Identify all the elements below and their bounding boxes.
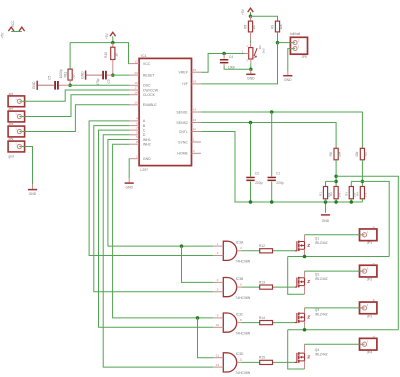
svg-text:10k: 10k <box>338 151 342 157</box>
wire R8 to trimmer net <box>250 41 252 43</box>
wire row A to Q3/Q4 sources <box>336 176 398 329</box>
wire C4 to ground node <box>224 67 251 70</box>
svg-text:GND: GND <box>32 81 36 89</box>
transistor Q2 IRLZ44Z <box>295 278 297 288</box>
svg-text:Q4: Q4 <box>315 348 320 352</box>
svg-text:INH2: INH2 <box>143 143 151 147</box>
svg-text:VREF: VREF <box>179 71 188 75</box>
svg-text:R8: R8 <box>243 25 247 29</box>
ground (below trimmer R2) <box>250 69 252 74</box>
IC1 pin 20 RESET <box>130 74 139 76</box>
svg-text:JP2: JP2 <box>367 278 373 282</box>
wire ground row stub <box>325 202 327 213</box>
svg-text:C2: C2 <box>255 172 259 176</box>
trimmer wiper lead <box>245 53 249 55</box>
resistor R14 <box>260 321 273 325</box>
svg-text:VCC: VCC <box>11 20 15 27</box>
svg-text:R10: R10 <box>104 52 108 58</box>
wire B to IC3B pin 5 <box>94 126 213 292</box>
wire Q1 source to Q2 source <box>288 257 305 295</box>
resistor R2 <box>334 187 338 199</box>
wire R5 down to R4 sense <box>361 160 363 187</box>
svg-text:3: 3 <box>246 59 248 63</box>
wire Q3 source to Q4 source <box>288 330 305 369</box>
wire INH1 to IC3A pin 1 <box>108 140 213 247</box>
svg-text:CW/CCW: CW/CCW <box>143 88 159 92</box>
svg-text:220p: 220p <box>255 181 263 185</box>
wire Q1 source down <box>304 249 306 256</box>
+5V supply symbol (top-left) <box>8 27 14 31</box>
ground (below IC1) <box>128 178 130 183</box>
svg-text:2: 2 <box>242 49 244 53</box>
svg-text:15: 15 <box>193 68 197 72</box>
resistor R9 <box>275 21 279 32</box>
ground (sense resistors) <box>321 214 330 216</box>
AND gate IC3A 74HC08N <box>223 241 236 260</box>
wire R9 to JP5 node <box>277 32 279 43</box>
resistor R15 <box>260 360 273 364</box>
IC1 pin 6 B <box>130 125 139 127</box>
junction R3 / ground row <box>350 200 354 204</box>
resistor R13 <box>260 285 273 289</box>
wire IC1 VREF pin 15 to trimmer wiper <box>201 54 245 73</box>
wire +5V stem <box>250 12 252 16</box>
svg-text:16: 16 <box>134 81 138 85</box>
junction INH2 <box>196 316 200 320</box>
svg-text:GND: GND <box>247 77 255 81</box>
svg-text:JP4: JP4 <box>367 351 373 355</box>
svg-text:GND: GND <box>143 157 151 161</box>
wire node to JP5 pin 2 <box>278 42 291 44</box>
svg-text:d: d <box>373 335 375 339</box>
junction C2 / ground row <box>249 200 253 204</box>
svg-text:4: 4 <box>136 117 138 121</box>
junction Q3 source <box>303 328 307 332</box>
svg-text:Q3: Q3 <box>315 308 320 312</box>
svg-text:10K: 10K <box>279 23 283 30</box>
svg-text:8: 8 <box>136 140 138 144</box>
wire JP9 to ground <box>20 147 33 185</box>
IC1 pin 15 VREF <box>192 71 201 73</box>
svg-text:10: 10 <box>134 101 138 105</box>
IC1 pin 4 A <box>130 120 139 122</box>
svg-text:6: 6 <box>136 121 138 125</box>
svg-text:JP5: JP5 <box>301 55 307 59</box>
IC3B output pin 6 <box>237 286 242 288</box>
svg-text:R12: R12 <box>259 244 265 248</box>
op-amp /controller IC1 L297 body <box>139 58 191 165</box>
svg-text:HOME: HOME <box>177 152 188 156</box>
wire trimmer pin 3 lead <box>250 59 252 64</box>
svg-text:12: 12 <box>216 353 220 357</box>
connector JP9 <box>8 141 25 152</box>
svg-text:3: 3 <box>193 149 195 153</box>
svg-text:R6: R6 <box>329 152 333 156</box>
svg-text:1W: 1W <box>364 193 368 198</box>
AND gate IC3B 74HC08N <box>223 278 236 297</box>
junction +5V right rail <box>249 14 253 18</box>
capacitor C4 leads <box>223 54 225 67</box>
resistor R12 <box>260 249 273 253</box>
svg-text:H/F: H/F <box>182 82 188 86</box>
svg-text:IRLZ44Z: IRLZ44Z <box>315 352 328 356</box>
connector JP2 <box>360 265 377 277</box>
wire IC3C output to gate of MOSFET <box>241 322 294 324</box>
wire RESET node to IC1 pin 20 <box>113 74 130 76</box>
wire IC3D output to gate of MOSFET <box>241 361 294 363</box>
connector JP3 <box>360 302 377 314</box>
svg-text:R1: R1 <box>319 192 323 196</box>
svg-text:IC3D: IC3D <box>236 352 244 356</box>
+5V supply symbol (top-right) <box>248 8 254 12</box>
wire R3 top lead <box>350 181 352 186</box>
svg-text:13: 13 <box>216 363 220 367</box>
IC1 pin 2 GND <box>130 158 139 160</box>
wire C2 to ground row <box>250 182 252 203</box>
wire INH2 to IC3D pin 12 <box>198 318 214 358</box>
capacitor C2 <box>246 177 254 179</box>
svg-text:1: 1 <box>193 138 195 142</box>
junction +5V rail <box>111 41 115 45</box>
svg-text:ENABLE: ENABLE <box>143 103 157 107</box>
ground (below JP5) <box>287 71 289 76</box>
wire R6 down to R2 sense <box>335 160 337 187</box>
svg-text:a: a <box>373 226 375 230</box>
svg-text:CLOCK: CLOCK <box>143 93 156 97</box>
junction R6 / row A <box>334 175 338 179</box>
svg-text:GND: GND <box>284 78 292 82</box>
svg-text:74HC08N: 74HC08N <box>235 371 250 375</box>
IC3A pin 1 <box>213 245 223 247</box>
junction H/F node <box>276 41 280 45</box>
IC1 pin 1 SYNC <box>192 141 201 143</box>
IC3D pin 12 <box>213 357 223 359</box>
wire D to IC3D pin 13 <box>103 135 213 367</box>
VCC supply symbol (top-left) <box>19 27 25 31</box>
svg-text:4: 4 <box>217 278 219 282</box>
svg-text:11: 11 <box>193 127 196 131</box>
svg-text:GND: GND <box>322 219 330 223</box>
svg-text:C4: C4 <box>229 55 233 59</box>
IC3C pin 10 <box>213 326 223 328</box>
junction trimmer / C4 ground node <box>249 68 253 72</box>
junction RESET node <box>111 73 115 77</box>
wire rail to R10 <box>112 43 114 48</box>
svg-text:JP1: JP1 <box>367 241 373 245</box>
IC3C output pin 8 <box>237 322 242 324</box>
capacitor C1 <box>268 177 276 179</box>
IC1 pin 18 CLOCK <box>130 94 139 96</box>
connector JP8 <box>8 126 25 137</box>
wire Q3 source down <box>304 321 306 330</box>
svg-text:9: 9 <box>136 131 138 135</box>
svg-text:5: 5 <box>136 135 138 139</box>
capacitor C3 <box>102 71 104 80</box>
resistor R1 <box>323 187 327 199</box>
svg-text:full/half: full/half <box>290 32 300 36</box>
IC1 pin 10 ENABLE <box>130 104 139 106</box>
IC1 pin 11 CNTL <box>192 131 201 133</box>
svg-text:SENS2: SENS2 <box>176 121 188 125</box>
resistor R11 <box>68 69 72 80</box>
svg-text:6: 6 <box>240 282 242 286</box>
svg-text:R15: R15 <box>259 356 265 360</box>
svg-text:GND: GND <box>81 71 85 79</box>
IC3C pin 9 <box>213 317 223 319</box>
junction SENS2 / C2 <box>249 121 253 125</box>
svg-text:18: 18 <box>134 90 138 94</box>
IC1 pin 5 INH1 <box>130 139 139 141</box>
svg-text:IC1: IC1 <box>141 54 147 58</box>
wire rail down to R11 <box>69 43 71 70</box>
wire C1 to ground row <box>271 182 273 203</box>
resistor R8 <box>248 21 252 32</box>
wire rail to R8 <box>250 16 252 21</box>
svg-text:9: 9 <box>217 314 219 318</box>
svg-text:2k7: 2k7 <box>252 24 256 29</box>
svg-text:7: 7 <box>136 126 138 130</box>
wire +5V rail to IC1 VCC pin 12 <box>70 43 130 64</box>
IC1 pin 9 D <box>130 134 139 136</box>
wire Q4 drain to connector <box>304 344 306 353</box>
svg-text:R9: R9 <box>270 25 274 29</box>
IC3D output pin 11 <box>237 361 242 363</box>
svg-text:R11: R11 <box>63 72 67 78</box>
wire trimmer pin 1 lead <box>250 43 252 48</box>
wire R3 bottom <box>350 199 352 202</box>
junction R6 / R1 row <box>334 180 338 184</box>
svg-text:IC3A: IC3A <box>236 241 244 245</box>
junction SENS1 / C1 <box>270 110 274 114</box>
svg-text:OSC: OSC <box>143 84 151 88</box>
wire OSC node to IC1 pin 16 <box>70 84 130 86</box>
wire +5V rail to R9 <box>251 16 278 21</box>
svg-text:12: 12 <box>134 59 138 63</box>
svg-text:1k: 1k <box>115 53 119 57</box>
svg-text:1: 1 <box>217 242 219 246</box>
svg-text:IRLZ44Z: IRLZ44Z <box>315 241 328 245</box>
AND gate IC3D 74HC08N <box>223 353 236 372</box>
svg-text:CNTL: CNTL <box>179 130 188 134</box>
svg-text:RESET: RESET <box>143 73 156 77</box>
wire JP5 pin 1 to ground <box>288 49 291 72</box>
svg-text:JP9: JP9 <box>8 137 14 141</box>
capacitor C4 <box>220 59 228 61</box>
IC1 pin 7 C <box>130 129 139 131</box>
transistor Q1 IRLZ44Z <box>295 241 297 251</box>
capacitor C3 leads <box>86 74 113 76</box>
svg-text:C5: C5 <box>48 75 52 79</box>
wire IC1 CNTL pin 11 to ground row <box>201 132 363 203</box>
svg-text:SENS1: SENS1 <box>176 110 188 114</box>
svg-text:JP7: JP7 <box>8 107 14 111</box>
wire ENABLE to JP8 <box>20 105 130 132</box>
IC1 pin 17 CW/CCW <box>130 89 139 91</box>
svg-text:gnd: gnd <box>9 154 15 158</box>
wire Q3 drain to connector <box>304 308 306 313</box>
junction ground row / R1 <box>324 200 328 204</box>
wire IC1 SENS2 pin 13 to R6 <box>201 123 336 149</box>
svg-text:Q1: Q1 <box>315 236 320 240</box>
connector JP5 <box>290 37 307 54</box>
IC3A output pin 3 <box>237 250 242 252</box>
IC1 pin 14 SENS1 <box>192 111 201 113</box>
wire R1 top lead <box>325 181 327 186</box>
wire IC1 H/F pin 19 to node <box>201 43 278 84</box>
IC1 pin 12 VCC <box>130 63 139 65</box>
svg-text:VCC: VCC <box>143 62 151 66</box>
svg-text:L297: L297 <box>140 168 148 172</box>
wire R11 to OSC node <box>69 80 71 85</box>
svg-text:GND: GND <box>125 185 133 189</box>
IC1 pin 16 OSC <box>130 84 139 86</box>
trimmer potentiometer R2 <box>249 48 253 59</box>
wire CLOCK to JP7 <box>20 95 130 117</box>
svg-text:IRLZ44Z: IRLZ44Z <box>315 277 328 281</box>
svg-text:3: 3 <box>240 246 242 250</box>
wire row B to Q1/Q2 sources <box>351 181 389 256</box>
resistor R3 <box>349 187 353 199</box>
wire INH1 to IC3B pin 4 <box>182 246 214 282</box>
wire Q3/Q4 source row <box>288 329 399 331</box>
svg-text:5: 5 <box>217 288 219 292</box>
IC1 pin 3 HOME <box>192 152 201 154</box>
wire IC3A output to gate of MOSFET <box>241 250 294 252</box>
svg-text:b: b <box>373 299 375 303</box>
IC1 pin 13 SENS2 <box>192 122 201 124</box>
svg-text:JP6: JP6 <box>8 92 14 96</box>
resistor R6 <box>334 148 338 160</box>
svg-text:+5V: +5V <box>105 33 109 40</box>
svg-text:+5V: +5V <box>1 32 5 39</box>
svg-text:13: 13 <box>193 118 197 122</box>
wire R10 to RESET node <box>112 60 114 76</box>
svg-text:+5V: +5V <box>241 8 245 15</box>
connector JP6 <box>8 96 25 107</box>
capacitor C5 <box>54 81 56 90</box>
svg-text:74HC08N: 74HC08N <box>235 296 250 300</box>
wire SENS1 down to C1 <box>271 112 273 177</box>
svg-text:R2: R2 <box>329 192 333 196</box>
AND gate IC3C 74HC08N <box>223 313 236 332</box>
ground (left of C3) <box>86 74 102 76</box>
junction VREF / C4 <box>222 52 226 56</box>
wire INH2 to IC3C pin 9 <box>113 144 214 318</box>
wire IC3B output to gate of MOSFET <box>241 286 294 288</box>
wire R1 to R2 top <box>326 180 337 182</box>
svg-text:JP3: JP3 <box>367 314 373 318</box>
connector JP7 <box>8 111 25 122</box>
transistor Q4 IRLZ44Z <box>295 353 297 363</box>
svg-text:20: 20 <box>134 71 138 75</box>
svg-text:1W: 1W <box>337 193 341 198</box>
connector JP1 <box>360 229 377 241</box>
wire IC1 GND pin down <box>128 159 131 178</box>
wire +5V to VCC tie <box>11 31 22 33</box>
svg-text:74HC08N: 74HC08N <box>235 260 250 264</box>
IC3D pin 13 <box>213 366 223 368</box>
svg-text:220p: 220p <box>276 181 284 185</box>
svg-text:1000p: 1000p <box>59 69 63 78</box>
svg-text:C3: C3 <box>107 79 111 83</box>
resistor R4 <box>360 187 364 199</box>
junction R2 / ground row <box>334 200 338 204</box>
svg-text:74HC08N: 74HC08N <box>235 331 250 335</box>
junction C1 / ground row <box>270 200 274 204</box>
IC3A pin 2 <box>213 255 223 257</box>
wire R4 bottom <box>361 199 363 202</box>
svg-text:51K: 51K <box>72 72 76 79</box>
svg-text:14: 14 <box>193 108 197 112</box>
svg-text:IC3C: IC3C <box>236 312 244 316</box>
wire Q2 source down <box>304 286 306 295</box>
ground (below JP9) <box>32 185 34 190</box>
wire +5V stem <box>112 36 114 42</box>
wire R1 bottom <box>325 199 327 202</box>
svg-text:R14: R14 <box>259 316 265 320</box>
wire Q1/Q2 source row <box>288 256 390 258</box>
wire A to IC3A pin 2 <box>89 121 213 256</box>
resistor R5 <box>360 148 364 160</box>
svg-text:R4: R4 <box>355 192 359 196</box>
+5V supply symbol (above IC1) <box>110 32 116 36</box>
svg-text:Q2: Q2 <box>315 273 320 277</box>
wire CW/CCW to JP6 <box>20 90 130 101</box>
wire SENS2 down to C2 <box>250 123 252 177</box>
svg-text:10k: 10k <box>355 151 359 157</box>
svg-text:11: 11 <box>239 358 242 362</box>
junction Q1 source <box>303 255 307 259</box>
wire R2 bottom <box>335 199 337 202</box>
wire Q1 drain to connector <box>304 235 306 242</box>
svg-text:SYNC: SYNC <box>178 140 188 144</box>
svg-text:R3: R3 <box>344 192 348 196</box>
svg-text:JP8: JP8 <box>8 122 14 126</box>
IC3B pin 5 <box>213 291 223 293</box>
capacitor C5 leads <box>38 84 71 86</box>
svg-text:R13: R13 <box>259 280 265 284</box>
wire C to IC3C pin 10 <box>99 130 214 327</box>
svg-text:GND: GND <box>29 192 37 196</box>
resistor R10 <box>111 47 115 59</box>
IC3B pin 4 <box>213 281 223 283</box>
IC1 pin 8 INH2 <box>130 143 139 145</box>
svg-text:C1: C1 <box>276 172 280 176</box>
ground (left of C5) <box>38 84 54 86</box>
wire Q4 source down <box>304 361 306 369</box>
transistor Q3 IRLZ44Z <box>295 313 297 323</box>
IC1 pin 19 H/F <box>192 83 201 85</box>
junction INH1 <box>180 244 184 248</box>
svg-text:INH1: INH1 <box>143 138 151 142</box>
connector JP4 <box>360 338 377 350</box>
wire R8 lead to trimmer R2 <box>250 32 252 41</box>
svg-text:IC3B: IC3B <box>236 277 244 281</box>
wire Q2 drain to connector <box>304 271 306 278</box>
junction R5 / R3 row <box>361 180 365 184</box>
svg-text:8: 8 <box>240 318 242 322</box>
svg-text:470p: 470p <box>96 78 100 85</box>
junction OSC node <box>68 84 72 88</box>
svg-text:1: 1 <box>246 44 248 48</box>
svg-text:3k3: 3k3 <box>261 48 265 53</box>
svg-text:R5: R5 <box>364 152 368 156</box>
svg-text:19: 19 <box>193 80 197 84</box>
svg-text:17: 17 <box>134 86 138 90</box>
svg-text:IRLZ44Z: IRLZ44Z <box>315 313 328 317</box>
svg-text:2: 2 <box>217 251 219 255</box>
svg-text:2: 2 <box>136 154 138 158</box>
